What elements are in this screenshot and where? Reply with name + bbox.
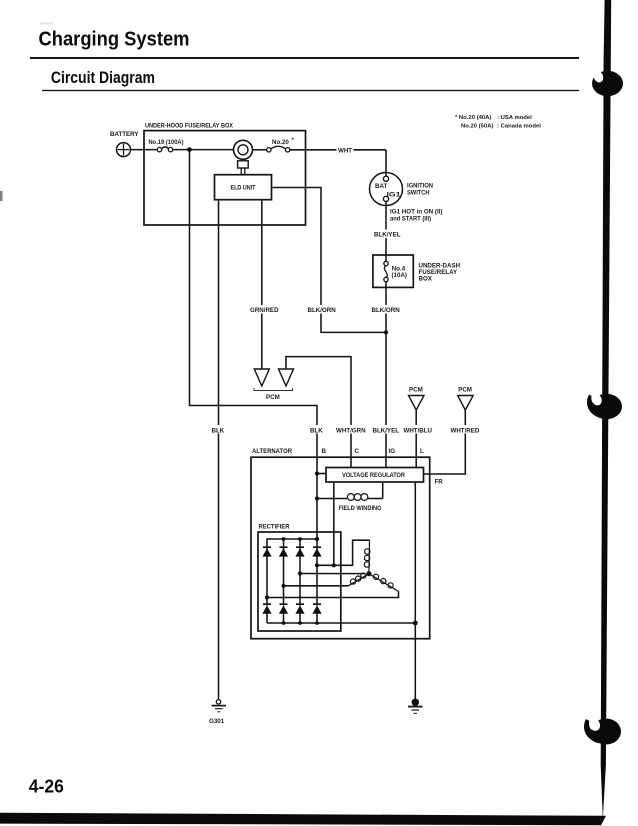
svg-text:BOX: BOX	[419, 275, 433, 282]
svg-text:BLK: BLK	[212, 427, 225, 434]
svg-text:BLK/YEL: BLK/YEL	[374, 232, 401, 239]
svg-text:PCM: PCM	[266, 394, 280, 401]
svg-text:No.19 (100A): No.19 (100A)	[149, 139, 184, 146]
svg-text:Charging System: Charging System	[39, 27, 190, 50]
svg-text:PCM: PCM	[458, 386, 472, 393]
svg-text:*: *	[292, 137, 295, 144]
svg-text:No.20 (50A): No.20 (50A)	[461, 124, 493, 130]
svg-text:WHT/RED: WHT/RED	[451, 427, 480, 434]
svg-text:BLK/YEL: BLK/YEL	[373, 427, 400, 434]
svg-text:IG1: IG1	[387, 191, 402, 198]
svg-text:RECTIFIER: RECTIFIER	[259, 523, 290, 530]
svg-text:B: B	[322, 448, 327, 455]
svg-text:GRN/RED: GRN/RED	[250, 307, 279, 314]
svg-text:BLK/ORN: BLK/ORN	[372, 307, 401, 314]
svg-text:IGNITION: IGNITION	[407, 182, 434, 189]
svg-text:ELD UNIT: ELD UNIT	[231, 184, 256, 191]
svg-text:C: C	[355, 448, 360, 455]
svg-text:BLK: BLK	[310, 427, 323, 434]
svg-text:IG: IG	[389, 448, 396, 455]
svg-text:and START (III): and START (III)	[390, 215, 431, 222]
svg-text:WHT/BLU: WHT/BLU	[404, 427, 433, 434]
svg-text:* No.20 (40A): * No.20 (40A)	[455, 115, 491, 121]
svg-text:ALTERNATOR: ALTERNATOR	[252, 448, 293, 455]
svg-text:BAT: BAT	[375, 183, 387, 190]
svg-text:G301: G301	[209, 718, 225, 725]
svg-text:BLK/ORN: BLK/ORN	[308, 307, 337, 314]
svg-text:: USA model: : USA model	[497, 115, 532, 121]
svg-text:PCM: PCM	[409, 386, 423, 393]
svg-text:VOLTAGE REGULATOR: VOLTAGE REGULATOR	[342, 472, 405, 479]
svg-text:Circuit Diagram: Circuit Diagram	[51, 68, 155, 87]
svg-text:No.20: No.20	[272, 139, 289, 146]
svg-text:(10A): (10A)	[392, 272, 407, 279]
svg-text:4-26: 4-26	[29, 777, 64, 797]
svg-text:FIELD WINDING: FIELD WINDING	[339, 505, 382, 512]
svg-text:FR: FR	[435, 478, 444, 485]
svg-text:WHT: WHT	[338, 147, 352, 154]
svg-text:: Canada model: : Canada model	[497, 124, 541, 130]
svg-text:UNDER-HOOD FUSE/RELAY BOX: UNDER-HOOD FUSE/RELAY BOX	[145, 123, 234, 130]
svg-text:WHT/GRN: WHT/GRN	[336, 427, 366, 434]
svg-text:SWITCH: SWITCH	[407, 189, 430, 196]
svg-text:BATTERY: BATTERY	[110, 131, 139, 138]
svg-text:L: L	[420, 448, 424, 455]
